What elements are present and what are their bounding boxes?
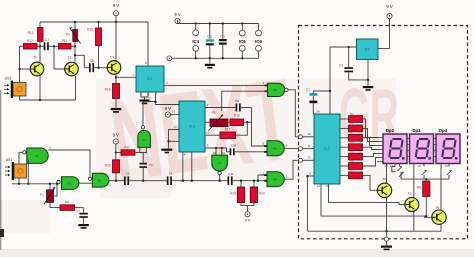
svg-text:C10: C10 <box>231 144 237 148</box>
wire P3 wiper to N5 input <box>222 91 268 111</box>
junction C6 on bus <box>142 180 144 182</box>
svg-text:12: 12 <box>307 132 311 136</box>
svg-text:C5: C5 <box>126 171 130 175</box>
pin N2 output label <box>49 145 51 149</box>
unused pin mark Dp4 <box>447 164 452 180</box>
wire bottom supply rail <box>169 57 258 59</box>
svg-text:R12: R12 <box>27 39 33 43</box>
junction rail-T1 collector <box>115 21 117 23</box>
resistor R15 <box>87 22 101 68</box>
transistor T3 <box>377 177 391 198</box>
svg-text:N4: N4 <box>273 178 277 182</box>
resistor R19 <box>230 187 254 206</box>
capacitor C4 <box>76 208 88 224</box>
nand gate N1 <box>57 177 79 190</box>
svg-text:IC2: IC2 <box>365 47 370 51</box>
resistor R9 <box>60 200 84 210</box>
ir receiver US2 <box>4 77 26 99</box>
junction C7-T6 base <box>53 45 65 69</box>
svg-text:R11: R11 <box>124 145 130 149</box>
wire P1 wiper tap <box>55 183 59 196</box>
left scan border <box>0 90 1 250</box>
power 9V symbol above box <box>378 4 393 48</box>
svg-text:C9: C9 <box>235 99 239 103</box>
transistor T2 <box>405 192 419 212</box>
capacitor C1 <box>306 87 331 114</box>
wire bottom bus in box <box>307 230 441 232</box>
resistor R12 <box>20 39 45 49</box>
capacitor C9 <box>235 99 251 112</box>
svg-text:IC6: IC6 <box>255 39 262 44</box>
ground main <box>381 246 392 251</box>
jpeg artifact washes <box>96 78 396 182</box>
wire US1 bottom pin <box>18 178 20 185</box>
svg-text:IC1: IC1 <box>147 77 152 81</box>
resistor R14 <box>59 39 76 49</box>
junction IC3 pins on bus <box>182 180 193 182</box>
wire C8 tap from T6 collector <box>74 54 89 68</box>
svg-text:13: 13 <box>390 164 394 168</box>
display Dp3 <box>410 128 434 164</box>
svg-text:T5: T5 <box>33 56 37 60</box>
svg-text:C8: C8 <box>89 59 93 63</box>
svg-text:N5: N5 <box>273 88 277 92</box>
wire N1 output to N3 <box>79 182 92 184</box>
wire R12 to US2 branch <box>19 46 21 100</box>
port circle middle <box>299 144 315 151</box>
display Dp4 <box>436 128 460 164</box>
svg-text:T3: T3 <box>382 177 386 181</box>
svg-text:11: 11 <box>317 184 320 188</box>
junction T5 base node <box>18 68 30 70</box>
power 9V symbol left <box>113 3 119 22</box>
transistor T5 <box>30 56 44 76</box>
svg-text:C6: C6 <box>169 171 173 175</box>
pins IC1 4 5 to ground <box>140 92 150 100</box>
wire US1 right to N2 input and bottom <box>27 160 30 185</box>
ground below IC2 <box>363 86 374 91</box>
wires segment links between displays <box>407 139 436 157</box>
wire IC2 input from 9V feed <box>330 47 357 114</box>
ir receiver US1 <box>5 158 27 180</box>
wire N5 output into box <box>288 90 298 137</box>
transistor T1 <box>107 55 121 74</box>
svg-text:T6: T6 <box>68 56 72 60</box>
svg-text:IC 3: IC 3 <box>189 125 195 129</box>
node T5 collector <box>39 45 41 62</box>
svg-text:R14: R14 <box>62 39 68 43</box>
svg-text:11: 11 <box>206 131 209 135</box>
wire N5b input stub <box>257 175 267 182</box>
svg-text:Dp4: Dp4 <box>439 128 448 133</box>
unused pin mark Dp3 <box>422 164 428 181</box>
svg-text:13: 13 <box>417 164 421 168</box>
wire T1 emitter to IC1 pin 1 <box>115 73 136 83</box>
counter IC7 <box>314 109 340 184</box>
power 9V symbol top middle <box>174 12 180 23</box>
resistor R18 <box>230 113 252 125</box>
svg-text:N1: N1 <box>98 179 102 183</box>
capacitor C8 <box>89 59 107 72</box>
wire N7 output to bus <box>219 175 221 181</box>
resistor R1 segment driver <box>340 113 380 138</box>
svg-text:R10: R10 <box>105 164 111 168</box>
svg-text:IC7: IC7 <box>324 147 329 151</box>
svg-text:R20: R20 <box>259 192 265 196</box>
svg-text:12: 12 <box>173 125 177 129</box>
resistor R13 <box>28 22 43 46</box>
power 9V symbol N8 branch <box>113 133 119 160</box>
supply pins IC5 <box>239 22 246 59</box>
svg-text:9 V: 9 V <box>165 106 171 111</box>
svg-text:C12: C12 <box>220 34 226 38</box>
junction ground drop <box>385 230 387 237</box>
capacitor C6 <box>139 163 153 181</box>
junction C3 tap <box>348 46 350 67</box>
junction R18 node <box>246 121 248 123</box>
svg-text:Dp2: Dp2 <box>386 128 395 133</box>
wire IC2 ground pin <box>367 60 369 86</box>
wire IC3 pin 9 through C9 <box>205 103 236 108</box>
nand gate N6 <box>262 141 284 156</box>
svg-text:P3: P3 <box>212 111 216 115</box>
wire IC1 pin 7 to IC3 <box>155 92 179 105</box>
junction T5 emitter <box>39 76 41 101</box>
nand gate N4 <box>262 171 284 186</box>
svg-text:9 V: 9 V <box>113 3 119 8</box>
wire top supply rail <box>178 21 259 24</box>
supply pins IC6 <box>255 24 262 59</box>
wire IC1 pin 2 to N5 input <box>164 81 268 86</box>
resistor R10 <box>105 160 120 181</box>
svg-text:C11: C11 <box>229 172 234 176</box>
wire N4 output up to port <box>285 160 299 179</box>
resistor R4 segment driver <box>340 141 380 151</box>
capacitor C5 series on bus <box>124 171 167 185</box>
svg-text:R19: R19 <box>230 192 236 196</box>
svg-text:C10: C10 <box>207 34 213 38</box>
svg-text:13: 13 <box>212 151 216 155</box>
resistor R20 <box>248 187 266 212</box>
wire T4 emitter <box>440 224 442 231</box>
svg-text:R13: R13 <box>28 31 34 35</box>
svg-text:13: 13 <box>444 164 448 168</box>
svg-text:US2: US2 <box>5 77 12 81</box>
svg-text:N6: N6 <box>142 138 146 142</box>
svg-text:N6: N6 <box>273 147 277 151</box>
port circle bottom <box>299 156 315 163</box>
wire US1 to N2 bubble input <box>19 152 23 164</box>
svg-text:N7: N7 <box>218 161 222 165</box>
pin IC7 bottom out B <box>317 184 432 218</box>
ground below C4 <box>78 224 89 229</box>
resistor R11 <box>121 145 140 155</box>
nand gate N2 <box>23 148 49 163</box>
wire emitter bus left <box>20 99 76 101</box>
svg-text:13: 13 <box>307 156 311 160</box>
svg-text:T.2: T.2 <box>408 192 412 196</box>
resistor R16 <box>105 84 120 109</box>
svg-text:R15: R15 <box>87 28 93 32</box>
resistor R6 segment driver <box>340 158 380 170</box>
potentiometer P3 <box>205 111 230 131</box>
svg-text:C3: C3 <box>339 64 343 68</box>
transistor T6 <box>65 56 79 76</box>
wire Dp2 common to T3 <box>387 164 394 184</box>
capacitor C3 <box>339 64 368 80</box>
svg-text:10: 10 <box>325 184 329 188</box>
power 9V symbol IC3 <box>165 106 179 117</box>
svg-text:R9: R9 <box>65 200 69 204</box>
node T6 collector <box>74 45 76 62</box>
pins N8 inputs <box>140 147 147 162</box>
svg-text:9 V: 9 V <box>245 219 251 223</box>
op-amp IC3 <box>179 101 205 152</box>
svg-text:R8: R8 <box>417 186 421 190</box>
junction R20 on bus <box>253 180 255 187</box>
wire US2 bottom to ground bus <box>19 96 21 100</box>
svg-text:C7: C7 <box>45 38 49 42</box>
capacitor C7 <box>44 38 59 51</box>
pin IC3 12 to ground <box>161 125 179 154</box>
wire T2 emitter <box>413 212 415 232</box>
junction T6 emitter <box>75 76 77 100</box>
wire T1 collector <box>115 22 117 61</box>
svg-text:9 V: 9 V <box>174 12 180 17</box>
junction N8-IC1 node <box>154 101 156 103</box>
svg-text:16: 16 <box>316 109 320 113</box>
dashed enclosure box <box>299 26 468 239</box>
port circle ground <box>384 237 388 245</box>
wire N6 output <box>285 143 299 148</box>
wire bottom input bus <box>12 182 58 184</box>
nand gate N5 <box>263 81 288 97</box>
capacitor C6b series on bus <box>167 171 228 185</box>
wire IC3 pin 3 to C10b <box>205 143 230 151</box>
resistor R3 segment driver <box>340 132 380 146</box>
nand gate N8 <box>138 126 151 148</box>
junction N7 input ties <box>215 147 223 155</box>
terminal circle left <box>167 56 172 61</box>
capacitor C10b <box>230 144 267 156</box>
ground below decoupling <box>205 58 215 68</box>
ground below R16 <box>111 108 122 113</box>
potentiometer P1 <box>40 183 55 205</box>
svg-text:T.1: T.1 <box>110 55 114 59</box>
ground below IC1 <box>140 100 150 105</box>
resistor R8 <box>417 179 430 217</box>
nand gate N7 <box>212 151 228 175</box>
capacitor C11 series on bus <box>228 172 268 185</box>
wire Dp4 common to T4 <box>441 164 448 211</box>
power 9V symbol below R19 R20 <box>245 212 251 223</box>
resistor R7 segment driver <box>340 169 377 190</box>
junction rail-R15 <box>97 21 99 23</box>
resistor R2 segment driver <box>340 122 380 141</box>
svg-text:R17: R17 <box>225 127 231 131</box>
svg-text:12: 12 <box>222 151 226 155</box>
svg-text:9 V: 9 V <box>386 4 392 9</box>
junction R15-C8-T1 base <box>97 67 99 69</box>
resistor R17 <box>205 122 247 138</box>
voltage regulator IC2 <box>357 39 379 60</box>
junction R19 on bus <box>240 180 242 187</box>
junction rail-P2 <box>74 21 76 23</box>
svg-text:N2: N2 <box>35 154 39 158</box>
svg-text:R18: R18 <box>234 113 240 117</box>
svg-text:C1: C1 <box>306 87 310 91</box>
nand gate N3 <box>88 173 109 187</box>
display Dp2 <box>383 128 407 164</box>
wire dp bus <box>401 178 449 180</box>
junction 9V-R11 <box>115 151 121 153</box>
transistor T4 <box>432 206 446 225</box>
unused pin marks Dp2 <box>397 164 403 180</box>
port circle top <box>299 132 315 139</box>
potentiometer P2 <box>66 22 80 46</box>
wire N3 output bus start <box>109 180 124 182</box>
svg-text:16: 16 <box>172 109 176 113</box>
svg-text:C6: C6 <box>149 163 153 167</box>
wire node to N6 input <box>252 108 268 147</box>
wire P1 bottom to R9 <box>50 202 60 207</box>
resistor R5 segment driver <box>340 150 380 160</box>
svg-text:Dp3: Dp3 <box>413 128 422 133</box>
svg-text:IC5: IC5 <box>239 39 246 44</box>
pins IC3 bottom <box>183 152 192 181</box>
svg-text:P2: P2 <box>66 33 70 37</box>
wire N2 output down to N3 <box>48 150 90 177</box>
junction R10 on bus <box>115 180 117 182</box>
svg-text:N1: N1 <box>67 181 71 185</box>
wire N8 output to IC3 <box>143 102 156 126</box>
svg-text:IC4: IC4 <box>192 39 199 44</box>
op-amp IC1 <box>136 66 164 92</box>
svg-text:R16: R16 <box>105 88 111 92</box>
svg-text:P1: P1 <box>40 193 44 197</box>
svg-text:T4: T4 <box>435 206 439 210</box>
svg-text:C4: C4 <box>76 208 80 212</box>
svg-text:US1: US1 <box>6 158 13 162</box>
junction N7 out on bus <box>218 180 220 182</box>
wire +9V rail left section <box>40 21 148 23</box>
supply pins IC4 <box>192 22 199 59</box>
capacitor C12 decoupling <box>219 22 227 59</box>
pin IC7 bottom out A <box>325 184 404 205</box>
wire Dp3 common to T2 <box>414 164 421 198</box>
wire T3 emitter <box>386 197 388 231</box>
pin IC7 left to bottom bus <box>306 171 314 231</box>
wire IC1 pin 8 to rail <box>145 22 148 66</box>
pin bracket Dp2 <box>384 164 395 172</box>
pins Dp2 left <box>380 138 383 162</box>
svg-text:9 V: 9 V <box>113 133 119 138</box>
wire display pin 7 stub <box>377 161 379 163</box>
capacitor C10 decoupling <box>206 22 214 59</box>
